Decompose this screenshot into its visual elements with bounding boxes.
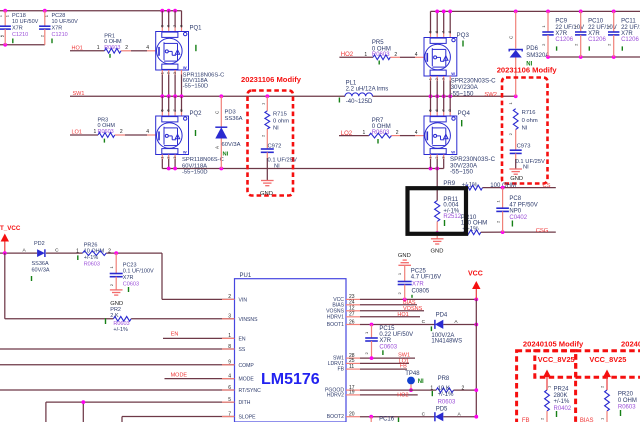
svg-text:C1206: C1206 [588, 37, 606, 43]
op-amp U1 LM5176 controller PU1 [235, 273, 347, 422]
resistor PR26 [76, 242, 111, 267]
svg-text:PD2: PD2 [34, 241, 45, 247]
diode PD5 [422, 406, 462, 421]
svg-text:1: 1 [363, 130, 366, 136]
svg-text:SLOPE: SLOPE [239, 415, 257, 421]
net label CSG [536, 228, 549, 234]
svg-text:1: 1 [94, 129, 97, 135]
svg-text:R0603: R0603 [84, 261, 100, 267]
svg-text:A: A [214, 146, 219, 149]
modify annotation 20231106 box left [241, 75, 302, 196]
svg-text:R0603: R0603 [618, 405, 636, 411]
svg-text:+/-1%: +/-1% [84, 255, 99, 261]
svg-text:4: 4 [146, 45, 149, 51]
wire HDRV2 pin19 [360, 394, 418, 396]
net label SW2 [484, 92, 497, 98]
net label SW1 [73, 91, 85, 97]
svg-text:SPR118N06S-C: SPR118N06S-C [182, 157, 224, 163]
svg-text:-55~150: -55~150 [451, 91, 474, 98]
svg-text:C1206: C1206 [555, 37, 573, 43]
svg-text:2: 2 [120, 129, 123, 135]
svg-text:PR20: PR20 [618, 392, 634, 398]
svg-text:VINSNS: VINSNS [239, 317, 259, 323]
wire PQ2 drain verticals [159, 96, 183, 116]
power symbol T_VCC [0, 225, 21, 253]
svg-text:LM5176: LM5176 [261, 371, 320, 388]
wire VIN to PU1 [162, 253, 235, 299]
svg-text:W: W [451, 150, 455, 155]
net label LO1 [72, 130, 82, 136]
svg-text:W: W [451, 71, 455, 76]
wire VIN top rail left [0, 9, 182, 13]
capacitor PC8 [495, 188, 537, 233]
svg-text:4: 4 [146, 129, 149, 135]
svg-text:GND: GND [510, 176, 523, 182]
net label VOSNS [403, 306, 423, 312]
svg-text:C: C [422, 411, 426, 417]
svg-text:20240105 Modify: 20240105 Modify [523, 339, 584, 348]
svg-text:1N4148WS: 1N4148WS [431, 339, 462, 345]
svg-text:NI: NI [418, 379, 424, 385]
ground in modify box 1 [260, 181, 274, 198]
wire FB pin11 [360, 368, 407, 370]
svg-text:SW1: SW1 [398, 353, 410, 359]
diode PD3 [214, 96, 242, 168]
svg-text:+/-1%: +/-1% [113, 327, 128, 333]
power symbol VCC_8V25 right [589, 355, 626, 390]
svg-text:0 OHM: 0 OHM [618, 398, 637, 404]
capacitor PC25 and ground above [397, 253, 441, 299]
wire MODE [165, 378, 235, 380]
svg-text:10 UF/50V: 10 UF/50V [12, 19, 39, 25]
wire BIAS pin24 [360, 304, 417, 306]
svg-text:4: 4 [415, 130, 418, 136]
inductor PL1 [339, 81, 388, 105]
svg-text:FB: FB [522, 418, 530, 422]
svg-text:GND: GND [398, 253, 411, 259]
svg-text:PD3: PD3 [225, 110, 236, 116]
svg-text:COMP: COMP [239, 363, 255, 369]
svg-text:HDRV1: HDRV1 [327, 314, 344, 320]
svg-text:DITH: DITH [239, 400, 251, 406]
svg-text:-55~150D: -55~150D [182, 170, 208, 176]
capacitor PC16 [371, 417, 398, 423]
svg-text:C: C [422, 319, 426, 325]
wire RT/SYNC [0, 389, 235, 391]
resistor PR11 current shunt [435, 197, 462, 235]
svg-text:0.1 UF/100V: 0.1 UF/100V [123, 269, 154, 275]
svg-text:PC23: PC23 [123, 262, 137, 268]
svg-text:CS: CS [543, 183, 551, 189]
svg-text:R0603: R0603 [438, 399, 456, 405]
partial capacitor at left edge [0, 14, 3, 37]
svg-text:20240: 20240 [621, 339, 640, 348]
resistor PR7 [363, 118, 418, 144]
svg-text:5: 5 [228, 397, 231, 403]
svg-text:HDRV2: HDRV2 [327, 392, 344, 398]
svg-text:SS: SS [239, 347, 246, 353]
svg-text:C0805: C0805 [412, 289, 430, 295]
svg-text:20231106 Modify: 20231106 Modify [241, 75, 302, 84]
resistor PR3 [94, 118, 150, 143]
svg-text:-55~150D: -55~150D [183, 83, 209, 89]
power symbol VCC [468, 271, 483, 300]
svg-text:2: 2 [228, 294, 231, 300]
svg-text:HO2: HO2 [397, 392, 408, 398]
wire HO2 [339, 56, 424, 58]
net label HO1 right [397, 312, 408, 318]
transistor PQ4 [424, 110, 496, 176]
svg-text:PQ4: PQ4 [458, 110, 471, 117]
transistor PQ1 [156, 24, 225, 89]
resistor PR1 [97, 34, 150, 58]
svg-text:C0603: C0603 [123, 282, 139, 288]
svg-text:X7R: X7R [123, 275, 134, 281]
svg-text:NI: NI [274, 164, 280, 170]
svg-text:PD6: PD6 [526, 46, 538, 52]
svg-text:11: 11 [349, 364, 354, 370]
wire PQ1 source to SW1 [159, 70, 181, 96]
diode PD2 [23, 241, 60, 281]
net label FB right [400, 364, 407, 370]
svg-text:20: 20 [349, 412, 355, 418]
svg-text:C0603: C0603 [379, 344, 397, 350]
svg-text:EN: EN [171, 332, 179, 338]
svg-text:+/-1%: +/-1% [554, 399, 571, 405]
modify annotation 20240 box right edge [576, 339, 640, 377]
net label MODE [171, 373, 188, 379]
svg-text:2.2 uH/12A lrms: 2.2 uH/12A lrms [346, 87, 389, 93]
svg-text:FB: FB [400, 364, 407, 370]
svg-text:X7R: X7R [379, 338, 391, 344]
svg-text:R716: R716 [522, 110, 536, 116]
svg-text:PR26: PR26 [84, 242, 98, 248]
svg-text:MODE: MODE [239, 377, 255, 383]
svg-text:C0402: C0402 [509, 215, 527, 221]
svg-text:R715: R715 [273, 112, 287, 118]
wire HDRV1 pin27 [360, 316, 420, 318]
svg-text:0 ohm: 0 ohm [522, 118, 538, 124]
svg-text:PC10: PC10 [588, 18, 604, 24]
svg-text:PC15: PC15 [379, 326, 395, 332]
wire CS [483, 186, 556, 190]
net label LO1 right [399, 359, 409, 365]
svg-text:0.1 UF/25V: 0.1 UF/25V [516, 159, 545, 165]
svg-text:C: C [55, 248, 59, 254]
svg-text:VCC_8V25: VCC_8V25 [589, 355, 626, 364]
svg-text:CSG: CSG [536, 228, 549, 234]
svg-text:BIAS: BIAS [580, 418, 594, 422]
pin stubs PU1 left [222, 294, 261, 420]
svg-text:X7R: X7R [52, 26, 63, 32]
svg-text:-40~125D: -40~125D [346, 99, 373, 105]
capacitor C973 [510, 130, 545, 171]
wire PQ4 source to PGND rail [428, 155, 446, 169]
svg-text:C1210: C1210 [52, 32, 68, 38]
wire SS [0, 348, 235, 350]
svg-text:SM320A: SM320A [526, 53, 549, 59]
svg-text:C1206: C1206 [621, 37, 639, 43]
resistor PR9 [437, 181, 516, 190]
net label LO2 [341, 131, 353, 137]
svg-text:MODE: MODE [171, 373, 188, 379]
svg-text:GND: GND [260, 191, 273, 197]
svg-text:26: 26 [349, 319, 355, 325]
net label HO1 [72, 46, 83, 52]
wire HO1 [70, 50, 156, 52]
transistor PQ2 [156, 111, 224, 176]
capacitor PC11 [607, 11, 640, 57]
svg-text:W: W [183, 150, 187, 155]
svg-text:W: W [183, 65, 187, 70]
svg-text:X7R: X7R [12, 26, 23, 32]
svg-text:280K: 280K [554, 393, 568, 399]
test point TP48 [405, 371, 424, 392]
diode PD6 [509, 11, 550, 96]
net label HO2 right [397, 392, 408, 398]
net label BIAS [403, 300, 416, 306]
svg-text:9: 9 [228, 360, 231, 366]
svg-text:27: 27 [349, 312, 355, 318]
svg-text:R2512: R2512 [443, 214, 461, 220]
pin stubs PU1 right [325, 294, 360, 420]
ground in modify box 2 [509, 169, 523, 182]
svg-text:NI: NI [273, 126, 279, 132]
svg-text:PC16: PC16 [379, 417, 395, 422]
capacitor PC23 [109, 253, 154, 292]
svg-text:7: 7 [228, 411, 231, 417]
svg-text:2: 2 [108, 249, 111, 255]
svg-text:1: 1 [97, 45, 100, 51]
svg-text:-55~150: -55~150 [450, 169, 473, 176]
wire VOSNS pin12 [360, 310, 424, 312]
svg-text:X7R: X7R [412, 282, 424, 288]
wire VCC pin23 [360, 298, 478, 302]
svg-text:TP48: TP48 [405, 371, 420, 377]
resistor R715 [260, 96, 289, 137]
svg-text:PD5: PD5 [436, 406, 448, 412]
svg-text:2: 2 [125, 45, 128, 51]
svg-text:BOOT1: BOOT1 [327, 322, 344, 328]
svg-text:60V/3A: 60V/3A [32, 267, 50, 273]
modify annotation 20231106 box right [497, 65, 558, 183]
diode PD4 [422, 313, 462, 345]
wire BOOT1 pin26 [360, 323, 478, 327]
svg-text:C973: C973 [517, 144, 531, 150]
wire EN [163, 337, 235, 339]
svg-text:VCC: VCC [468, 271, 483, 278]
svg-text:BOOT2: BOOT2 [327, 414, 344, 420]
resistor PR10 [437, 214, 502, 235]
svg-text:HO1: HO1 [397, 312, 408, 318]
svg-text:0.1 UF/25V: 0.1 UF/25V [268, 157, 297, 163]
svg-text:2: 2 [396, 130, 399, 136]
resistor PR8 [430, 376, 478, 406]
svg-text:NI: NI [523, 165, 529, 171]
svg-text:NP0: NP0 [509, 209, 521, 215]
svg-text:PR8: PR8 [438, 376, 450, 382]
svg-text:PC8: PC8 [509, 196, 521, 202]
svg-text:47 PF/50V: 47 PF/50V [509, 202, 537, 208]
wire output cap bottom rail [546, 55, 640, 59]
capacitor PC15 [364, 325, 413, 359]
svg-text:20231106 Modify: 20231106 Modify [497, 65, 558, 74]
svg-text:GND: GND [431, 248, 444, 254]
svg-text:SW2: SW2 [484, 92, 497, 98]
svg-text:2: 2 [394, 52, 397, 58]
wire LO1 [70, 134, 156, 136]
svg-text:60V/3A: 60V/3A [222, 142, 241, 148]
wire BOOT2 pin20 [360, 415, 478, 419]
svg-text:NI: NI [223, 152, 229, 158]
svg-text:R0402: R0402 [554, 406, 572, 412]
resistor PR2 [106, 307, 132, 333]
net label CS [543, 183, 551, 189]
net label EN [171, 332, 179, 338]
svg-text:4.7 UF/16V: 4.7 UF/16V [411, 275, 441, 281]
net label HO2 [341, 52, 354, 58]
wire PQ4 source sense vertical [436, 169, 438, 201]
resistor PR5 [364, 40, 417, 65]
svg-text:1: 1 [430, 386, 433, 392]
svg-text:0 ohm: 0 ohm [273, 119, 289, 125]
capacitor PC28 [39, 11, 78, 45]
svg-text:SS36A: SS36A [225, 116, 243, 122]
svg-text:NI: NI [522, 125, 528, 131]
svg-text:1: 1 [76, 249, 79, 255]
svg-text:19: 19 [349, 390, 355, 396]
svg-text:PR24: PR24 [554, 386, 570, 392]
svg-text:VCC_8V25: VCC_8V25 [538, 355, 575, 364]
svg-text:SS36A: SS36A [32, 261, 49, 267]
svg-text:1: 1 [364, 52, 367, 58]
resistor PR20 [600, 385, 637, 422]
svg-text:PC9: PC9 [555, 18, 567, 24]
svg-text:+/-1%: +/-1% [438, 392, 455, 398]
wire VINSNS [5, 253, 235, 319]
wire SW1 pin28 [360, 356, 415, 360]
power symbol VCC_8V25 left [538, 355, 575, 390]
wire BAT_VCC row [0, 251, 162, 255]
highlight black box [408, 188, 467, 234]
wire PQ3 source to SW2 [428, 76, 451, 96]
capacitor C972 [261, 129, 297, 181]
svg-text:PL1: PL1 [346, 81, 357, 87]
svg-text:4: 4 [228, 373, 231, 379]
svg-text:EN: EN [239, 337, 246, 343]
svg-text:RT/SYNC: RT/SYNC [239, 388, 262, 394]
ground below PC23 [110, 290, 123, 307]
svg-text:1: 1 [228, 333, 231, 339]
svg-text:6: 6 [228, 385, 231, 391]
svg-text:0.22 UF/50V: 0.22 UF/50V [379, 332, 413, 338]
svg-text:FB: FB [337, 367, 344, 373]
capacitor PC10 [574, 11, 617, 57]
wire PQ1 drain verticals [160, 9, 181, 32]
svg-text:C1210: C1210 [12, 32, 28, 38]
svg-text:PQ2: PQ2 [190, 111, 203, 117]
net label BIAS bottom [580, 418, 594, 424]
wire PQ2 source to PGND rail [159, 155, 177, 169]
capacitor PC9 [541, 11, 584, 57]
svg-text:PQ1: PQ1 [190, 26, 203, 32]
wire PQ4 drain verticals [428, 96, 453, 116]
wire SLOPE [122, 417, 235, 423]
wire input cap bottom rail [0, 43, 45, 47]
svg-text:8: 8 [228, 344, 231, 350]
resistor R716 [508, 102, 538, 136]
wire COMP [0, 364, 235, 366]
svg-text:3: 3 [228, 314, 231, 320]
wire SW1-PL1-SW2 [70, 94, 518, 98]
transistor PQ3 [424, 30, 496, 98]
svg-text:PQ3: PQ3 [457, 32, 470, 39]
wire LO2 [339, 135, 424, 137]
modify annotation 20240105 box [517, 339, 584, 427]
svg-text:T_VCC: T_VCC [0, 225, 21, 232]
svg-text:VIN: VIN [239, 298, 248, 304]
wire PGOOD pin17 [360, 389, 436, 391]
wire VCC vertical to boot diodes [475, 299, 477, 418]
wire LDRV1 pin25 [360, 362, 409, 364]
svg-text:10 UF/50V: 10 UF/50V [52, 19, 79, 25]
net label FB bottom [522, 418, 530, 424]
svg-text:4: 4 [415, 52, 418, 58]
svg-text:PC11: PC11 [621, 18, 636, 24]
wire PGND rail [162, 167, 443, 171]
svg-text:PR5: PR5 [372, 40, 384, 46]
resistor PR24 [540, 385, 572, 422]
wire PQ3 drain verticals and top-right rail [431, 10, 640, 38]
svg-text:PD4: PD4 [436, 313, 448, 319]
capacitor PC18 [0, 11, 39, 45]
wire DITH [46, 400, 235, 422]
net label SW1 right [398, 353, 410, 359]
svg-text:10 K: 10 K [438, 386, 450, 392]
wire CSG [501, 230, 556, 234]
ground below PR11 [431, 233, 444, 254]
